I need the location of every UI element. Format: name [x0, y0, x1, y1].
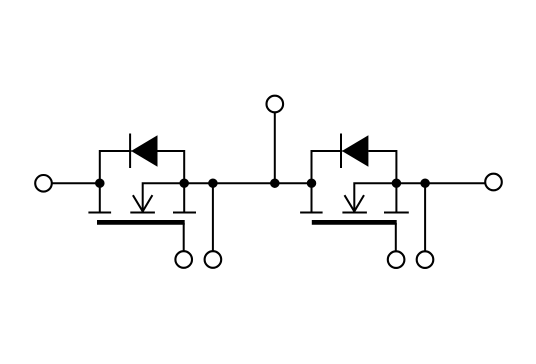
diode D1 cathode bar: [129, 134, 131, 169]
diode D2 cathode bar: [340, 134, 342, 169]
wire Q1 gate lead: [183, 223, 185, 251]
Q2 source contact bar: [384, 212, 409, 214]
Q1 body contact bar: [130, 212, 155, 214]
node: Q2 sense junction: [420, 178, 430, 188]
terminal pin 5 (Q1 source sense): [205, 251, 222, 268]
wire Q1 drain leg to D1 cathode: [100, 151, 132, 213]
node: Q2 drain junction: [307, 178, 317, 188]
wire pin2 to midpoint node: [274, 113, 276, 184]
wire Q1 source sense lead: [212, 183, 214, 250]
Q1 gate bar: [97, 220, 185, 225]
terminal pin 4 (Q1 gate): [175, 251, 192, 268]
wire Q2 gate lead: [395, 223, 397, 251]
Q2 gate bar: [312, 220, 397, 225]
Q1 drain contact bar: [88, 212, 111, 214]
wire D1 anode to Q1 source leg: [158, 151, 185, 213]
terminal pin 3 (right source terminal): [485, 174, 502, 191]
node: Q1 source junction: [179, 178, 189, 188]
node: midpoint junction: [270, 178, 280, 188]
wire Q2 source sense lead: [424, 183, 426, 250]
node: Q2 source junction: [392, 178, 402, 188]
terminal pin 2 (center midpoint, top): [267, 96, 284, 113]
node: Q1 sense junction: [208, 178, 218, 188]
diode D2 triangle: [342, 135, 369, 167]
wire D2 anode to Q2 source leg: [368, 151, 396, 213]
Q1 source contact bar: [173, 212, 196, 214]
node: Q1 drain junction: [95, 178, 105, 188]
wire pin1 to Q1 drain node: [52, 182, 100, 184]
Q2 drain contact bar: [300, 212, 323, 214]
wire Q2 drain leg to D2 cathode: [312, 151, 343, 213]
wire Q1 body tie corner and bus to Q2 drain: [143, 183, 312, 211]
Q2 body contact bar: [342, 212, 367, 214]
Q1 body arrowhead: [133, 195, 153, 211]
terminal pin 7 (Q2 source sense): [417, 251, 434, 268]
diode D1 triangle: [131, 135, 157, 167]
wire Q2 body tie corner and bus to pin 3: [354, 183, 485, 211]
terminal pin 1 (left drain terminal): [35, 175, 52, 192]
terminal pin 6 (Q2 gate): [388, 251, 405, 268]
Q2 body arrowhead: [345, 195, 365, 211]
